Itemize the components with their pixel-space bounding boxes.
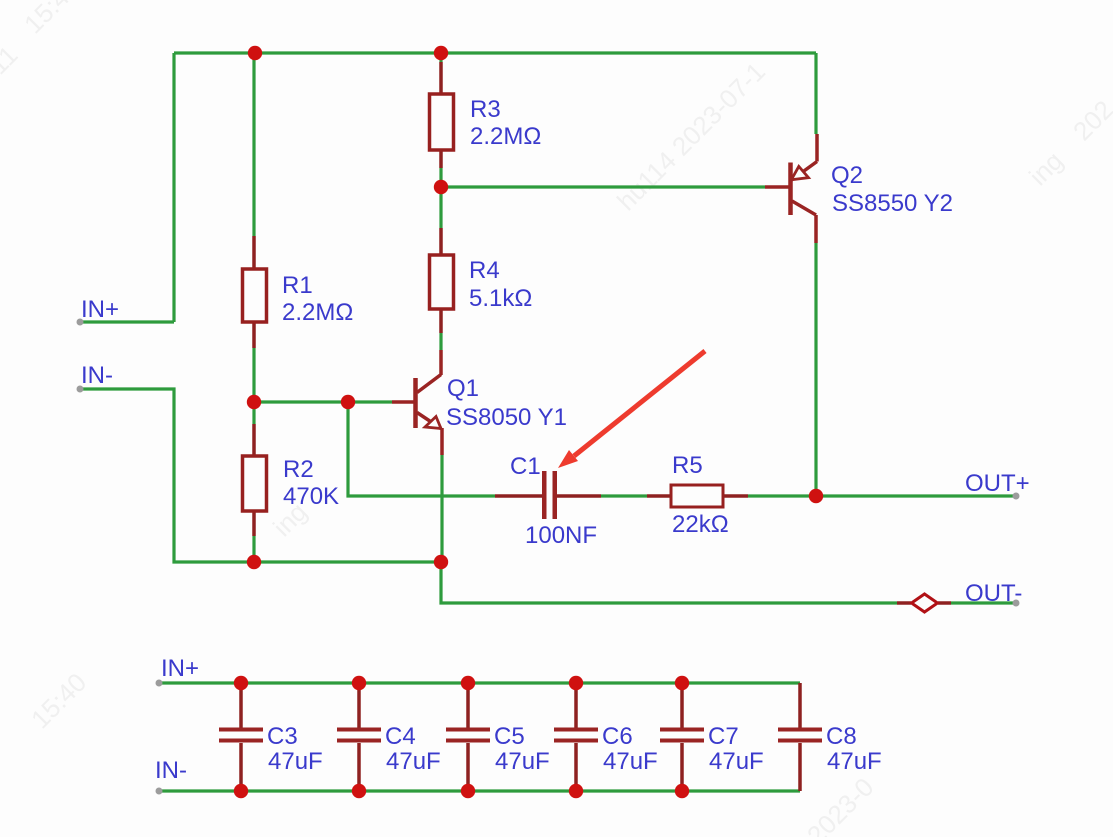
wire IN- branch [80,389,441,562]
svg-text:R3: R3 [470,96,501,123]
svg-text:5.1kΩ: 5.1kΩ [469,285,532,312]
capacitor C5 [446,683,490,791]
svg-text:IN+: IN+ [161,655,199,682]
wire cap bank bottom rail [160,789,800,792]
wire cap bank top rail [160,681,800,684]
svg-text:C8: C8 [826,723,857,750]
wire R4 column [439,187,442,350]
wire feedback from base node [348,402,495,496]
svg-text:100NF: 100NF [525,522,597,549]
svg-text:C6: C6 [602,723,633,750]
junction node OUT+ [809,489,823,503]
svg-text:47uF: 47uF [827,748,882,775]
wire Q1 base [254,400,392,403]
capacitor C7 [660,683,704,791]
wire R5 to OUT+ [748,494,1016,497]
transistor Q1 [392,350,442,455]
wire R2 column [252,402,255,562]
junction node bottom rail R2 [247,555,261,569]
terminal IN- top [77,386,84,393]
capacitor C4 [337,683,381,791]
svg-text:SS8550 Y2: SS8550 Y2 [832,190,953,217]
wire C1 to R5 [601,494,647,497]
svg-text:2.2MΩ: 2.2MΩ [470,123,541,150]
svg-text:IN-: IN- [81,362,113,389]
svg-text:R1: R1 [282,272,313,299]
wire R1 column [252,53,255,402]
resistor R3 [439,62,443,168]
wire Q2 base [441,185,765,188]
svg-text:Q1: Q1 [447,375,479,402]
svg-text:C4: C4 [385,723,416,750]
wire left vertical IN+ [80,53,174,322]
capacitor C3 [219,683,263,791]
wire R3 column [439,53,442,187]
resistor R1 [252,236,256,348]
junction node top rail left [248,46,262,60]
transistor Q2 [765,134,817,243]
svg-text:47uF: 47uF [603,748,658,775]
annotation red arrow pointing at C1 [558,351,705,468]
svg-text:Q2: Q2 [831,162,863,189]
svg-text:R4: R4 [469,257,500,284]
svg-text:47uF: 47uF [495,748,550,775]
wire OUT- run [441,562,1016,603]
svg-text:IN-: IN- [155,757,187,784]
svg-text:C1: C1 [510,453,541,480]
resistor R2 [252,424,256,536]
svg-text:470K: 470K [283,483,339,510]
svg-text:47uF: 47uF [709,748,764,775]
terminal OUT- [1013,600,1020,607]
resistor R5 [647,494,748,498]
OUT- diamond symbol [897,601,911,605]
resistor R4 [439,228,443,333]
svg-text:47uF: 47uF [268,748,323,775]
svg-text:R2: R2 [283,456,314,483]
terminal OUT+ [1013,493,1020,500]
svg-text:SS8050 Y1: SS8050 Y1 [446,404,567,431]
svg-text:2.2MΩ: 2.2MΩ [282,299,353,326]
svg-text:47uF: 47uF [386,748,441,775]
wire Q1 emitter to rail [440,455,443,562]
svg-text:C3: C3 [267,723,298,750]
junction node bottom rail emitter [434,555,448,569]
terminal IN- bottom [156,788,163,795]
capacitor C6 [554,683,598,791]
junction nodes cap bank top [234,676,248,690]
svg-text:22kΩ: 22kΩ [672,511,729,538]
svg-text:OUT-: OUT- [965,580,1022,607]
wire top rail [174,51,816,54]
svg-text:IN+: IN+ [81,296,119,323]
junction node top rail R3 [434,46,448,60]
terminal IN+ bottom [156,680,163,687]
junction node R3-R4 [434,180,448,194]
svg-text:R5: R5 [672,452,703,479]
svg-text:C7: C7 [708,723,739,750]
junction node base R1 [247,395,261,409]
junction node base feedback [341,395,355,409]
capacitor C8 [778,683,822,791]
svg-text:C5: C5 [494,723,525,750]
terminal IN+ top [77,319,84,326]
capacitor C1 [495,494,601,498]
wire Q2 collector column [814,53,817,496]
svg-text:OUT+: OUT+ [965,470,1030,497]
junction nodes cap bank bottom [234,784,248,798]
